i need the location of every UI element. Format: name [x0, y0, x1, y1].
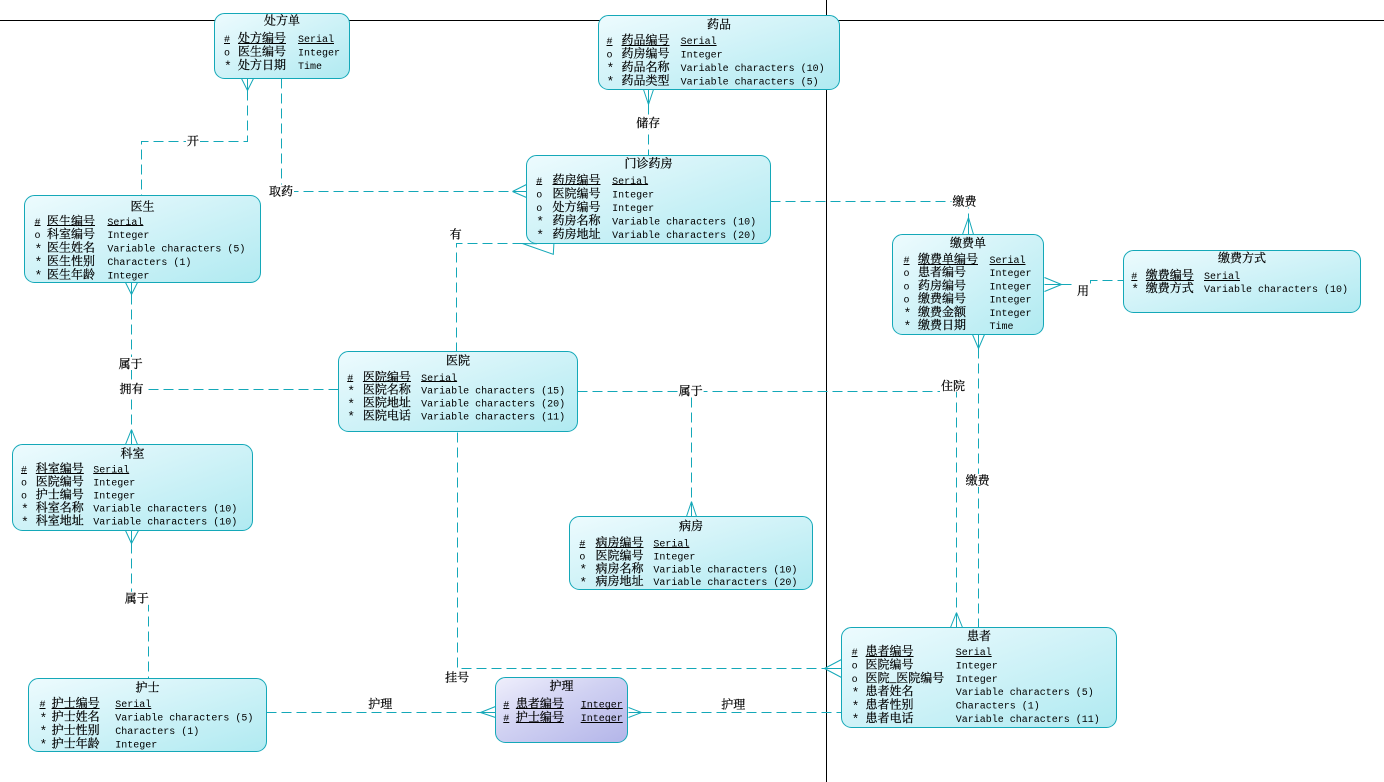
wire 属于 (医院-病房) — [578, 392, 692, 502]
relationship label 取药 — [268, 182, 294, 199]
entity 患者 — [842, 627, 1117, 728]
svg-text:Integer: Integer — [990, 296, 1032, 307]
svg-text:Integer: Integer — [107, 231, 149, 242]
relationship label 住院 — [940, 377, 966, 394]
svg-text:Variable characters (11): Variable characters (11) — [421, 412, 565, 424]
svg-text:Variable characters (10): Variable characters (10) — [93, 517, 237, 529]
svg-text:护士: 护士 — [135, 678, 159, 695]
svg-text:Variable characters (10): Variable characters (10) — [612, 216, 756, 228]
svg-text:Integer: Integer — [681, 51, 723, 62]
svg-text:Serial: Serial — [653, 539, 689, 551]
svg-text:缴费: 缴费 — [953, 192, 978, 209]
svg-text:药品: 药品 — [707, 15, 731, 32]
svg-text:Integer: Integer — [990, 309, 1032, 320]
svg-text:Integer: Integer — [956, 675, 998, 686]
svg-text:Variable characters (20): Variable characters (20) — [612, 230, 756, 242]
svg-text:住院: 住院 — [941, 377, 965, 394]
relationship label 属于 — [678, 382, 704, 399]
svg-text:病房: 病房 — [679, 517, 703, 534]
svg-text:#: # — [904, 256, 910, 267]
svg-text:Serial: Serial — [1204, 271, 1240, 283]
svg-text:缴费日期: 缴费日期 — [918, 316, 966, 333]
relationship label 护理 — [720, 695, 746, 712]
svg-text:处方单: 处方单 — [264, 12, 300, 29]
svg-text:Integer: Integer — [990, 282, 1032, 293]
svg-text:#: # — [35, 218, 41, 229]
wire 属于 (医生-科室) — [131, 295, 133, 430]
relationship label 属于 — [124, 590, 150, 607]
svg-text:Serial: Serial — [115, 699, 151, 711]
svg-text:护士年龄: 护士年龄 — [52, 734, 100, 751]
svg-text:Integer: Integer — [93, 478, 135, 489]
svg-text:Serial: Serial — [956, 647, 992, 659]
svg-text:#: # — [852, 648, 858, 659]
svg-text:o: o — [904, 282, 910, 293]
page-break line vertical — [826, 0, 828, 782]
relationship label 开 — [186, 132, 200, 149]
svg-text:Integer: Integer — [581, 701, 623, 712]
entity 护理 — [496, 677, 628, 742]
crow's foot at 处方单 bottom (开) — [242, 79, 254, 91]
entity 病房 — [570, 517, 813, 591]
svg-text:#: # — [224, 35, 230, 46]
svg-text:*: * — [40, 738, 48, 753]
entity 处方单 — [215, 12, 350, 79]
svg-text:Variable characters (10): Variable characters (10) — [1204, 284, 1348, 296]
svg-text:护理: 护理 — [368, 695, 392, 712]
svg-text:*: * — [852, 712, 860, 727]
wire 护理 (护理-患者) — [642, 712, 842, 714]
svg-text:Variable characters (10): Variable characters (10) — [653, 564, 797, 576]
svg-text:护理: 护理 — [721, 695, 745, 712]
entity 医生 — [25, 196, 261, 284]
svg-text:取药: 取药 — [269, 182, 293, 199]
svg-text:o: o — [904, 269, 910, 280]
crow's foot at 缴费单 top (缴费) — [963, 218, 974, 235]
relationship label 挂号 — [444, 668, 470, 685]
svg-text:科室地址: 科室地址 — [36, 512, 84, 529]
svg-text:o: o — [35, 231, 41, 242]
svg-text:属于: 属于 — [679, 382, 703, 399]
svg-text:#: # — [40, 700, 46, 711]
svg-text:o: o — [852, 675, 858, 686]
svg-text:Time: Time — [990, 321, 1014, 333]
svg-text:用: 用 — [1077, 282, 1089, 299]
crow's foot at 缴费单 right (用) — [1045, 278, 1062, 292]
svg-text:Variable characters (15): Variable characters (15) — [421, 386, 565, 398]
relationship label 用 — [1076, 282, 1090, 299]
svg-text:#: # — [607, 37, 613, 48]
svg-text:Variable characters (10): Variable characters (10) — [93, 504, 237, 516]
svg-text:储存: 储存 — [636, 114, 660, 131]
svg-text:o: o — [536, 190, 542, 201]
entity 门诊药房 — [527, 155, 771, 244]
svg-text:o: o — [852, 662, 858, 673]
svg-text:Integer: Integer — [93, 492, 135, 503]
svg-text:*: * — [347, 410, 355, 425]
svg-text:科室: 科室 — [120, 445, 144, 462]
svg-text:*: * — [904, 319, 912, 334]
svg-text:患者: 患者 — [967, 627, 991, 644]
relationship label 缴费 — [965, 472, 991, 489]
wire 拥有 (医院-科室) — [132, 389, 339, 391]
svg-text:挂号: 挂号 — [445, 668, 469, 685]
relationship label 有 — [449, 225, 463, 242]
entity 缴费方式 — [1124, 249, 1361, 313]
svg-text:门诊药房: 门诊药房 — [624, 155, 672, 172]
svg-text:#: # — [536, 177, 542, 188]
svg-text:缴费方式: 缴费方式 — [1146, 279, 1194, 296]
svg-text:*: * — [579, 575, 587, 590]
svg-text:Integer: Integer — [956, 662, 998, 673]
wire 住院 (医院-患者) — [578, 392, 957, 613]
svg-text:病房地址: 病房地址 — [596, 572, 644, 589]
crow's foot at 门诊药房 bottom corner (有) — [522, 244, 554, 255]
svg-text:o: o — [21, 478, 27, 489]
svg-text:Characters (1): Characters (1) — [956, 701, 1040, 713]
svg-text:*: * — [21, 515, 29, 530]
crow's foot at 缴费单 bottom (缴费) — [973, 335, 985, 349]
svg-text:缴费单: 缴费单 — [950, 234, 986, 251]
svg-text:*: * — [607, 75, 615, 90]
wire 缴费 (门诊药房-缴费单) — [771, 202, 969, 218]
svg-text:医生年龄: 医生年龄 — [47, 265, 95, 282]
svg-text:Integer: Integer — [612, 204, 654, 215]
svg-text:*: * — [1131, 282, 1139, 297]
svg-text:开: 开 — [187, 132, 199, 149]
svg-text:Time: Time — [298, 61, 322, 73]
svg-text:#: # — [21, 465, 27, 476]
svg-text:属于: 属于 — [125, 590, 149, 607]
svg-text:#: # — [579, 540, 585, 551]
svg-text:属于: 属于 — [119, 355, 143, 372]
svg-text:Variable characters (10): Variable characters (10) — [681, 63, 825, 75]
crow's foot at 科室 top (属于/拥有) — [126, 430, 138, 445]
svg-text:有: 有 — [450, 225, 462, 242]
svg-text:Integer: Integer — [107, 271, 149, 282]
svg-text:o: o — [536, 204, 542, 215]
svg-text:*: * — [224, 59, 232, 74]
svg-text:Characters (1): Characters (1) — [107, 257, 191, 269]
svg-text:Serial: Serial — [681, 36, 717, 48]
relationship label 属于 — [118, 355, 144, 372]
relationship label 拥有 — [119, 380, 145, 397]
crow's foot at 病房 top (属于) — [687, 502, 697, 517]
svg-text:Integer: Integer — [298, 48, 340, 59]
svg-text:#: # — [503, 701, 509, 712]
crow's foot at 门诊药房 left (取药) — [513, 185, 527, 198]
page-break line horizontal — [0, 20, 1384, 22]
svg-text:Variable characters (5): Variable characters (5) — [107, 244, 245, 256]
entity 药品 — [599, 15, 840, 89]
svg-text:Serial: Serial — [298, 34, 334, 46]
entity 医院 — [339, 352, 578, 432]
svg-text:处方日期: 处方日期 — [238, 56, 286, 73]
svg-text:#: # — [503, 714, 509, 725]
svg-text:*: * — [536, 228, 544, 243]
svg-text:医院: 医院 — [446, 352, 470, 369]
svg-text:Serial: Serial — [990, 255, 1026, 267]
svg-text:Integer: Integer — [115, 740, 157, 751]
crow's foot at 患者 left (挂号) — [825, 660, 842, 678]
wire 有 (门诊药房-医院) — [457, 244, 523, 352]
svg-text:*: * — [35, 269, 43, 284]
crow's foot at 护理 right (护理) — [629, 708, 642, 718]
relationship label 储存 — [635, 114, 661, 131]
crow's foot at 医生 bottom (属于) — [126, 283, 138, 295]
svg-text:医院电话: 医院电话 — [363, 407, 411, 424]
svg-text:Serial: Serial — [107, 217, 143, 229]
entity 护士 — [29, 678, 267, 752]
wire 取药 (处方单-门诊药房) — [282, 79, 513, 192]
svg-text:药品类型: 药品类型 — [622, 71, 670, 88]
svg-text:o: o — [607, 51, 613, 62]
svg-text:Serial: Serial — [421, 373, 457, 385]
wire 用 (缴费单-缴费方式) — [1062, 281, 1124, 285]
svg-text:Characters (1): Characters (1) — [115, 726, 199, 738]
svg-text:药房地址: 药房地址 — [553, 225, 601, 242]
svg-text:Variable characters (11): Variable characters (11) — [956, 714, 1100, 726]
relationship label 护理 — [367, 695, 393, 712]
svg-text:Serial: Serial — [93, 464, 129, 476]
relationship label 缴费 — [952, 192, 978, 209]
svg-text:Integer: Integer — [990, 269, 1032, 280]
svg-text:缴费方式: 缴费方式 — [1218, 249, 1266, 266]
svg-text:缴费: 缴费 — [966, 472, 991, 489]
svg-text:Variable characters (5): Variable characters (5) — [681, 76, 819, 88]
svg-text:患者电话: 患者电话 — [866, 709, 914, 726]
svg-text:Integer: Integer — [581, 714, 623, 725]
crow's foot at 患者 top (住院) — [951, 613, 963, 628]
svg-text:Variable characters (5): Variable characters (5) — [115, 713, 253, 725]
wire 储存 (药品-门诊药房) — [648, 105, 650, 156]
crow's foot at 药品 bottom (储存) — [644, 90, 654, 105]
svg-text:Integer: Integer — [612, 190, 654, 201]
svg-text:护理: 护理 — [549, 677, 573, 694]
wire 属于 (科室-护士) — [132, 544, 149, 679]
svg-text:o: o — [904, 296, 910, 307]
wire 开 (处方单-医生) — [142, 91, 248, 196]
svg-text:医生: 医生 — [130, 198, 154, 215]
wire 缴费 (缴费单-患者) — [978, 349, 980, 628]
entity 缴费单 — [893, 234, 1044, 335]
entity 科室 — [13, 445, 253, 531]
crow's foot at 护理 left (护理) — [481, 707, 496, 718]
crow's foot at 科室 bottom (属于) — [126, 531, 139, 544]
svg-text:Variable characters (20): Variable characters (20) — [421, 399, 565, 411]
svg-text:Integer: Integer — [653, 552, 695, 563]
svg-text:Serial: Serial — [612, 176, 648, 188]
svg-text:o: o — [224, 48, 230, 59]
svg-text:拥有: 拥有 — [120, 380, 144, 397]
svg-text:Variable characters (20): Variable characters (20) — [653, 577, 797, 589]
wire 挂号 (医院-患者) — [458, 433, 825, 669]
svg-text:Variable characters (5): Variable characters (5) — [956, 687, 1094, 699]
wire 护理 (护士-护理) — [267, 712, 481, 714]
